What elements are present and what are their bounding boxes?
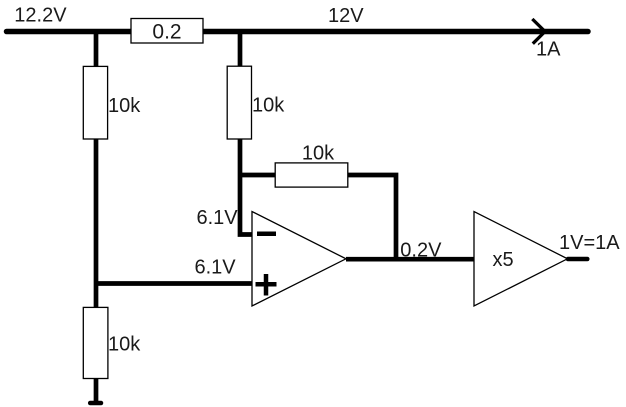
resistor R3 10k (bottom left)	[83, 307, 108, 378]
wire to non-inverting input	[96, 281, 252, 286]
svg-text:12V: 12V	[328, 5, 364, 27]
wire feedback left segment	[240, 173, 276, 178]
resistor R2 10k (middle)	[227, 66, 251, 139]
svg-text:6.1V: 6.1V	[195, 257, 237, 279]
svg-text:0.2V: 0.2V	[400, 240, 442, 262]
amplifier x5	[474, 212, 568, 307]
op-amp minus symbol	[257, 232, 276, 237]
svg-text:12.2V: 12.2V	[14, 5, 67, 27]
wire left branch middle	[94, 139, 99, 308]
svg-text:10k: 10k	[302, 143, 335, 165]
op-amp plus symbol	[256, 274, 277, 296]
svg-text:1V=1A: 1V=1A	[559, 232, 620, 254]
resistor R1 10k (top left)	[83, 66, 107, 139]
wire feedback right segment down to output	[348, 175, 396, 259]
wire to ground	[94, 379, 99, 402]
wire left branch drop	[94, 32, 99, 69]
resistor R4 10k (feedback)	[275, 163, 348, 187]
svg-text:6.1V: 6.1V	[197, 207, 239, 229]
wire top rail 12.2V to 12V	[7, 29, 589, 35]
svg-text:10k: 10k	[108, 334, 141, 356]
wire middle branch to inverting input	[240, 139, 252, 235]
op-amp U1	[252, 212, 346, 307]
ground	[90, 401, 101, 406]
svg-text:1A: 1A	[536, 39, 561, 61]
svg-text:10k: 10k	[108, 95, 141, 117]
wire op-amp output	[346, 257, 474, 262]
wire final output	[568, 257, 587, 262]
current arrow 1A	[532, 19, 545, 44]
svg-text:x5: x5	[493, 249, 514, 271]
svg-text:10k: 10k	[252, 95, 285, 117]
svg-text:0.2: 0.2	[152, 20, 181, 43]
wire middle branch drop	[238, 32, 243, 69]
resistor shunt 0.2	[131, 19, 203, 44]
